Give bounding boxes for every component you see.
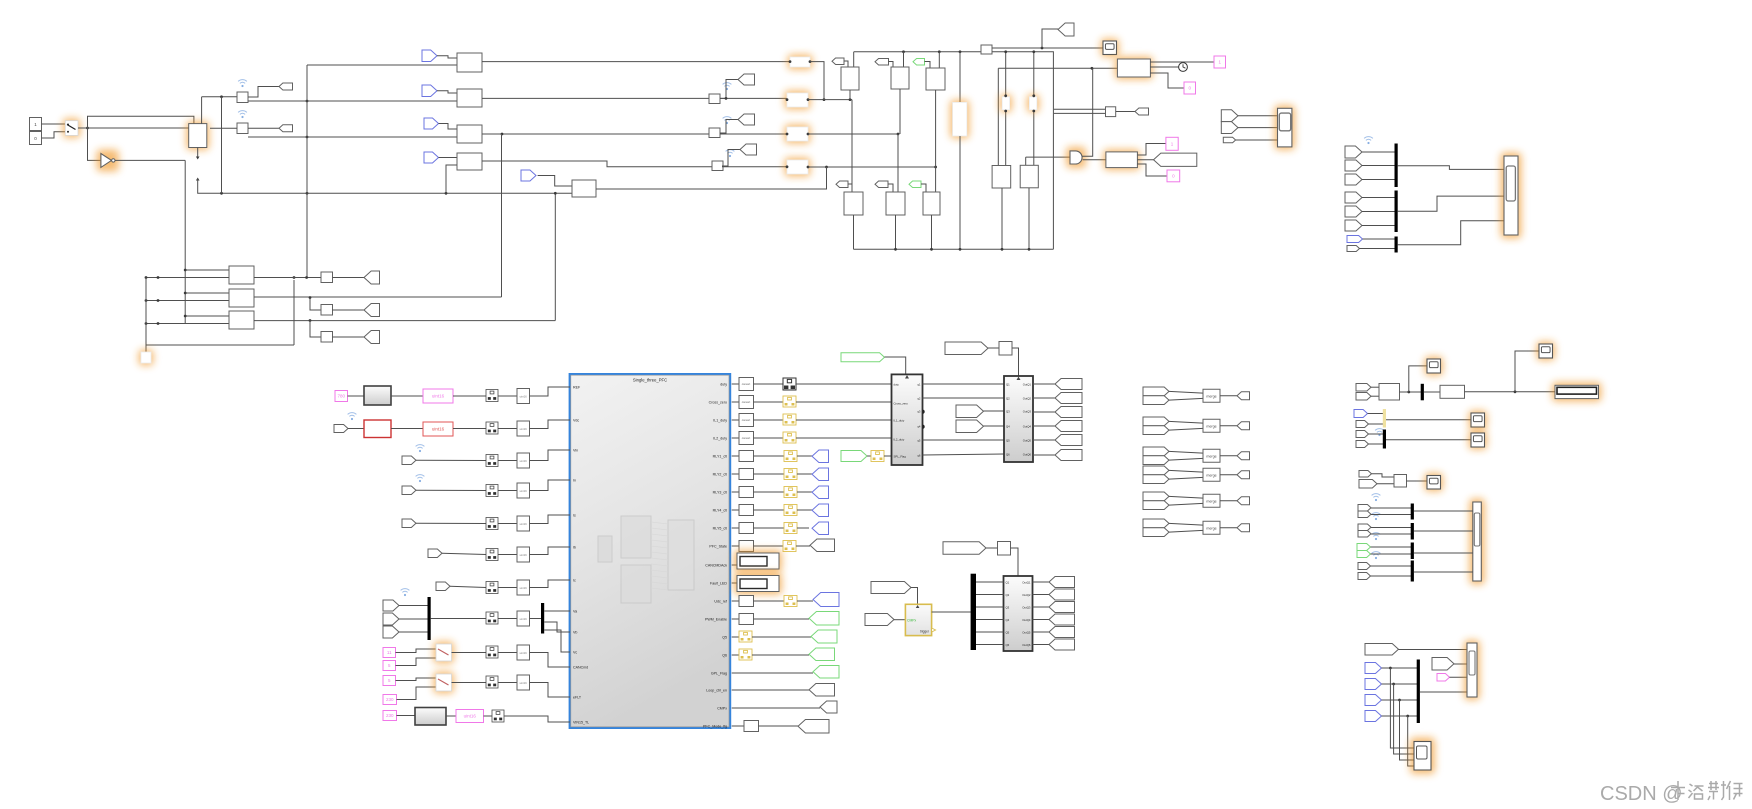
wire tag to delay C	[986, 547, 998, 549]
wire cluster row2 upper	[185, 292, 229, 294]
port dot row3 in	[786, 133, 789, 136]
junction c2	[309, 296, 312, 299]
svg-text:merge: merge	[1206, 499, 1216, 503]
wire mr5	[1369, 433, 1384, 435]
wire br aux to display	[1454, 663, 1467, 665]
wire tag Ic	[450, 586, 486, 587]
wire tag into l3	[921, 184, 926, 192]
wire rw2b	[1371, 533, 1411, 535]
wire u2 down	[899, 89, 901, 134]
junction row4 to column	[934, 166, 937, 169]
constant 230 eFLT	[383, 695, 397, 705]
junction below col5 block	[1032, 110, 1035, 113]
goto tag merge row5	[1237, 497, 1250, 505]
wire demux to C Q4	[976, 619, 1004, 621]
input tag Q4	[956, 420, 984, 433]
wireless icon rw3	[1372, 533, 1381, 541]
junction x555 top	[554, 192, 557, 195]
wire CMPx out to demux	[932, 611, 971, 613]
rate transition eFLT	[517, 675, 530, 690]
goto tag compare	[1135, 108, 1149, 115]
svg-text:uint16: uint16	[520, 586, 528, 590]
junction col l4	[1004, 50, 1007, 53]
svg-text:q6: q6	[917, 453, 921, 457]
wire RLY1_ctl b	[797, 455, 812, 457]
wireless icon row2	[723, 83, 732, 91]
wire bus to gain4 lower input	[446, 165, 457, 193]
rate transition Vabc	[517, 611, 530, 626]
svg-text:OutQ4: OutQ4	[1023, 424, 1032, 428]
rate transition Vdc	[517, 421, 530, 436]
data type conversion IL2_duty	[783, 432, 796, 443]
wire vertical trunk x185	[184, 160, 186, 324]
gain block row4	[457, 153, 482, 170]
constant 5	[383, 661, 396, 671]
junction above col5 block	[1032, 94, 1035, 97]
wire C OutQ3	[1033, 606, 1050, 608]
port dot row2 in	[786, 98, 789, 101]
goto tag merge row2	[1237, 422, 1250, 430]
wire bytepack to rt Ic	[498, 587, 517, 589]
wire const to switch eFLT	[396, 678, 437, 681]
wire block2 to goto	[248, 127, 279, 129]
svg-text:RLY2_ctl: RLY2_ctl	[713, 473, 728, 477]
input tag SPL_Flag (green)	[841, 451, 867, 462]
wire row CANCmd to port	[530, 653, 571, 668]
trigger glyph block A	[905, 375, 909, 378]
svg-text:Ic: Ic	[573, 579, 576, 583]
wire tag into u3	[925, 62, 931, 69]
input tag fr2	[1345, 160, 1362, 171]
svg-text:uint16: uint16	[520, 553, 528, 557]
mux bar rw3	[1411, 543, 1414, 560]
convert block RLY1_ctl	[739, 451, 754, 462]
junction br4 tap	[1406, 715, 1409, 718]
arrow dangling start	[196, 178, 200, 181]
convert block duty	[739, 378, 754, 391]
junction dotcol r3	[145, 322, 148, 325]
junction dotcol2 r2	[157, 299, 160, 302]
wire c2 to goto	[333, 309, 365, 311]
saturation block Vdc (red)	[364, 420, 391, 438]
input tag u3 (green)	[913, 59, 925, 66]
convert block RLY3_ctl	[739, 487, 754, 498]
wire AND to timer block	[1083, 159, 1106, 161]
svg-text:Vc: Vc	[573, 651, 577, 655]
rate transition row3	[709, 128, 720, 138]
data type conversion RLY5_ctl	[784, 523, 797, 534]
svg-text:11: 11	[387, 650, 392, 655]
svg-text:Va: Va	[573, 610, 577, 614]
AND gate (highlighted)	[1066, 147, 1086, 168]
junction display tap	[1514, 390, 1517, 393]
convert block PFC_State	[739, 541, 754, 552]
subsystem tag pair merge row4	[1143, 466, 1169, 475]
junction dotcol2 r3	[157, 322, 160, 325]
trigger glyph block C	[1016, 577, 1020, 580]
wire compare to goto	[1116, 111, 1135, 113]
wire to goto tag top	[1042, 29, 1058, 48]
data type conversion Cross_zero	[783, 396, 796, 407]
wire c1 to goto	[333, 277, 365, 279]
wire drop u2	[903, 52, 905, 67]
wire IL2_duty a	[754, 437, 784, 439]
wire merge row3 a	[1169, 451, 1203, 453]
small block col5 (highlighted)	[1027, 94, 1039, 112]
junction trunk cluster row1	[184, 269, 187, 272]
junction row5 riser	[825, 166, 828, 169]
from tag row2	[422, 85, 437, 97]
wire row Is to port	[530, 515, 571, 524]
wire vertical x221	[221, 97, 223, 194]
logic block u1	[841, 67, 859, 90]
wire row1 long	[482, 61, 790, 63]
junction col l5	[1032, 50, 1035, 53]
mux bar Vabc	[428, 597, 431, 640]
wire GPL_Flag	[732, 672, 813, 674]
scope mr3 (highlighted)	[1469, 411, 1488, 430]
svg-text:OutQ6: OutQ6	[1022, 643, 1031, 647]
wire bytepack to rt Vdc	[498, 428, 517, 430]
wire uint16 to bytepack VIN15	[484, 715, 493, 717]
wire port stub	[732, 455, 739, 457]
rate transition block1	[237, 92, 248, 103]
wire long y101	[248, 100, 457, 102]
input tag Ib	[428, 549, 442, 558]
compare block	[1106, 107, 1116, 117]
junction x294 top	[293, 276, 296, 279]
wire l4 down	[1001, 188, 1003, 249]
junction x221 top	[220, 95, 223, 98]
wire feedback x502	[501, 134, 503, 297]
from tag br2 (blue)	[1365, 679, 1382, 690]
junction bus 960	[959, 248, 962, 251]
lookup block VIN15	[415, 708, 446, 726]
junction above col4 block	[1004, 94, 1007, 97]
merge block row4	[1203, 468, 1220, 481]
svg-text:Vdc: Vdc	[573, 419, 579, 423]
input tag rw5	[1358, 573, 1371, 580]
svg-text:OutQ5: OutQ5	[1023, 438, 1032, 442]
goto tag C OutQ1	[1049, 577, 1075, 588]
wire OutQ1	[1033, 383, 1055, 385]
svg-text:Q5: Q5	[722, 636, 727, 640]
wire timer2 to clock	[1150, 66, 1179, 68]
svg-text:convert: convert	[742, 418, 751, 422]
wire rw1b	[1371, 514, 1411, 516]
wireless icon cluster1	[1364, 137, 1373, 145]
input tag mr1	[1356, 384, 1371, 392]
wire demux to port Vc	[544, 630, 570, 652]
goto tag PFC_State	[810, 539, 835, 552]
scope mr1 (highlighted)	[1425, 357, 1444, 376]
wire const780 to block	[348, 395, 365, 397]
from tag br4 (blue)	[1365, 711, 1382, 722]
convert block Cross_zero	[739, 396, 754, 409]
wire merge row4 b	[1169, 477, 1203, 479]
wire drop to delay top	[201, 97, 203, 124]
wire mr6	[1369, 443, 1384, 445]
svg-text:uint16: uint16	[520, 395, 528, 399]
subsystem tag pair merge row1	[1143, 387, 1169, 396]
byte pack Vin	[486, 455, 498, 467]
wire col l4 left input	[997, 68, 999, 165]
goto tag OutQ1	[1055, 379, 1082, 390]
junction br2 tap	[1392, 683, 1395, 686]
wire bar2 to display	[1398, 196, 1504, 211]
input tag fr5	[1345, 206, 1362, 217]
rate transition CANCmd	[517, 645, 530, 660]
wire mux to filter mr	[1424, 391, 1440, 393]
wire merge row1 b	[1169, 398, 1203, 400]
wire merge row5 a	[1169, 496, 1203, 498]
wire vertical x1053	[992, 52, 1053, 250]
tag pair rw2	[1358, 524, 1371, 531]
svg-text:uint16: uint16	[520, 427, 528, 431]
wire q5 to Q5	[923, 439, 1005, 441]
wire switch to bytepack eFLT	[452, 682, 487, 684]
input tag fr1	[1345, 146, 1362, 158]
small block (highlighted)	[139, 350, 154, 366]
junction bus 931.5	[930, 248, 933, 251]
saturation row1 (highlighted)	[788, 55, 813, 70]
convert block IL2_duty	[739, 432, 754, 445]
wire rw3 to display	[1414, 552, 1473, 554]
svg-text:merge: merge	[1206, 394, 1216, 398]
wire row eFLT to port	[530, 683, 571, 698]
wireless icon row4	[726, 150, 735, 158]
input tag CMPx source	[871, 582, 911, 594]
wire tag to red block	[348, 428, 364, 430]
wire rw4 to display	[1414, 571, 1473, 573]
convert block Udc_ref	[739, 596, 754, 607]
wire c3 out	[254, 320, 555, 322]
wire row4 to saturation	[722, 166, 787, 168]
svg-text:OutQ3: OutQ3	[1023, 409, 1032, 413]
goto tag C OutQ5	[1049, 627, 1075, 638]
junction u2 drop	[902, 50, 905, 53]
wire demux to C Q6	[976, 644, 1004, 646]
from tag row4	[424, 152, 439, 163]
svg-text:Q3: Q3	[1006, 605, 1010, 609]
svg-text:uint16: uint16	[520, 489, 528, 493]
input tag fr6	[1345, 220, 1362, 231]
rate transition REF	[517, 389, 530, 404]
goto tag OutQ4	[1055, 421, 1082, 432]
svg-text:Q5: Q5	[1006, 630, 1010, 634]
wire bar1 to display	[1398, 166, 1504, 170]
wire const5 to switch	[396, 658, 437, 666]
wire OutQ2	[1033, 397, 1055, 399]
junction row3 to column	[897, 133, 900, 136]
wire c3 to goto	[333, 336, 365, 338]
wire tag4 to gain4	[439, 157, 458, 159]
wire OutQ6	[1033, 454, 1055, 456]
wire small tag to block	[1236, 139, 1278, 141]
wire port stub	[732, 473, 739, 475]
cast tag uint16 Vdc (red)	[423, 422, 453, 436]
rate transition duty (dark)	[783, 378, 796, 390]
wire row3 output	[808, 133, 898, 135]
wire tag5 to block5	[538, 176, 572, 187]
wire dtc to block A	[884, 455, 892, 457]
wire row3 to goto tag	[720, 120, 738, 134]
svg-text:OutQ2: OutQ2	[1023, 396, 1032, 400]
svg-text:q5: q5	[917, 438, 921, 442]
junction row3 x502	[501, 133, 504, 136]
gain block row3	[457, 125, 482, 143]
wire to NOT gate	[88, 128, 101, 160]
wire demux to C Q2	[976, 594, 1004, 596]
switch eFLT (highlighted)	[434, 672, 455, 694]
byte pack Ib	[486, 549, 498, 561]
tag pair rw1	[1358, 505, 1371, 512]
gain block row2	[457, 89, 482, 107]
wire PFC_Mode b	[759, 725, 799, 727]
junction trunk cluster row3	[184, 315, 187, 318]
goto tag RLY1_ctl (blue)	[812, 450, 829, 463]
wire into block B trigger	[1012, 348, 1019, 376]
port dot row2 out	[807, 98, 810, 101]
wire Udc_ref a	[754, 600, 785, 602]
svg-text:uint16: uint16	[464, 714, 477, 719]
subsystem tag pair merge row3	[1143, 447, 1169, 456]
data type conversion RLY2_ctl	[784, 469, 797, 480]
wire tag to Q3	[984, 410, 1005, 412]
svg-text:Q3: Q3	[1006, 409, 1010, 413]
logic block l3	[923, 192, 940, 215]
from tag row5	[521, 170, 536, 181]
wire l3 down	[931, 215, 933, 249]
trigger glyph block B	[1017, 377, 1021, 380]
wire constant1 to switch	[42, 123, 66, 125]
input tag mr6	[1356, 441, 1369, 448]
subsystem block C (Q outputs)	[1004, 576, 1033, 651]
mux bar br	[1417, 660, 1420, 724]
svg-text:CMPx: CMPx	[717, 707, 727, 711]
wire row2 to saturation	[720, 97, 787, 99]
wire row3 to saturation	[720, 133, 787, 135]
input tag CMPx data	[865, 614, 894, 626]
wire to compare block b	[1054, 112, 1106, 114]
merge block row5	[1203, 494, 1220, 507]
terminator 0 lower	[1167, 170, 1180, 182]
sum block mr	[1379, 384, 1400, 401]
wire Q5	[752, 636, 811, 638]
goto tag Q6 (green)	[809, 648, 835, 661]
timer block 2 (highlighted)	[1115, 57, 1153, 80]
goto tag c1	[364, 271, 380, 284]
wire pair2 to block	[1238, 127, 1278, 129]
wire tall block down	[959, 136, 961, 249]
wire merge row2 a	[1169, 421, 1203, 423]
wire to scope mr1	[1409, 366, 1427, 392]
wire merge row3 b	[1169, 458, 1203, 460]
terminator 1 upper	[1166, 137, 1178, 150]
svg-text:merge: merge	[1206, 473, 1216, 477]
goto tag Loop_ctrl_en	[809, 684, 835, 697]
wire port stub	[732, 491, 739, 493]
input tag Vc	[383, 626, 399, 638]
svg-text:q4: q4	[917, 424, 921, 428]
wire rw1a	[1371, 507, 1411, 509]
convert block IL1_duty	[739, 414, 754, 427]
input tag Vb	[383, 613, 399, 625]
logic block l2	[886, 192, 905, 215]
big goto tag	[1154, 153, 1197, 166]
wire l5 down	[1028, 188, 1030, 249]
goto tag row2	[738, 74, 755, 85]
wire c1 out	[254, 277, 321, 279]
delay block C	[998, 542, 1011, 556]
svg-text:convert: convert	[742, 382, 751, 386]
unconnected bump q4	[923, 425, 925, 429]
wire tag2 to gain2	[437, 91, 457, 93]
wire horizontal y345	[146, 344, 294, 346]
junction switch output	[86, 127, 89, 130]
junction bus x221	[220, 192, 223, 195]
wire merge row1 out	[1220, 395, 1237, 397]
mux bar mr	[1421, 384, 1424, 401]
wire timer to const1	[1137, 144, 1166, 156]
wire demux to C Q1	[976, 581, 1004, 583]
wire br3 to mux	[1382, 699, 1418, 701]
input tag Vdc	[334, 425, 348, 433]
tall display block far right (highlighted)	[1501, 153, 1522, 239]
saturation row2 (highlighted)	[785, 91, 811, 110]
wire timer2 to terminator1	[1150, 61, 1214, 63]
scope mr2 (highlighted)	[1537, 342, 1556, 361]
junction u3 drop	[938, 50, 941, 53]
wire NOT output	[115, 159, 185, 161]
subsystem tag pair merge row2	[1143, 417, 1169, 426]
wire PFC_Mode stub	[732, 725, 744, 727]
goto tag row3	[738, 114, 755, 125]
wire trigger into block A	[885, 357, 906, 374]
wireless icon rw4	[1372, 552, 1381, 560]
svg-text:GPL_Flag: GPL_Flag	[711, 672, 727, 676]
clock icon	[1179, 63, 1188, 72]
wire C OutQ4	[1033, 619, 1050, 621]
wire cluster row2 lower	[146, 300, 229, 302]
wire AND second input	[1082, 68, 1093, 156]
wire to delay block top	[88, 116, 194, 128]
wire fr2	[1362, 165, 1395, 167]
gain block row5	[572, 180, 596, 197]
wire cluster row1 upper	[185, 269, 229, 271]
wire q1 to Q1	[923, 383, 1005, 385]
unit delay block (highlighted)	[186, 121, 209, 150]
svg-text:Q6: Q6	[1006, 452, 1010, 456]
input tag br main	[1365, 644, 1399, 656]
from tag row1	[422, 50, 437, 62]
wire SPL tag to dtc	[867, 455, 871, 457]
svg-text:Fault_LED: Fault_LED	[710, 582, 727, 586]
wire rc1	[1372, 474, 1395, 477]
junction mr scope tap	[1407, 391, 1410, 394]
goto tag CMPx	[820, 701, 837, 713]
wire c2 jog	[310, 298, 321, 311]
svg-text:CMPx: CMPx	[907, 619, 917, 623]
svg-text:q1: q1	[917, 382, 921, 386]
subsystem tag pair merge row5	[1143, 492, 1169, 501]
port dot row4 in	[786, 165, 789, 168]
wire merge row2 b	[1169, 428, 1203, 430]
mux bar rw4	[1411, 561, 1414, 582]
wire q2 to Q2	[923, 397, 1005, 399]
svg-text:uint16: uint16	[432, 427, 445, 432]
svg-text:convert: convert	[742, 400, 751, 404]
